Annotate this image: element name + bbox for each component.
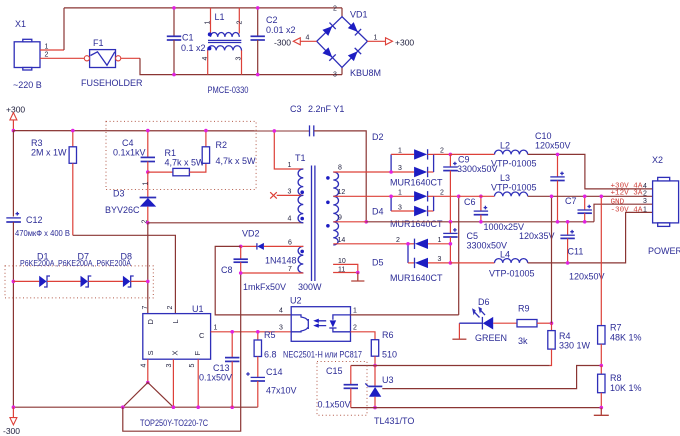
svg-text:GND: GND <box>611 198 625 206</box>
svg-text:7: 7 <box>142 306 149 310</box>
transformer T1 bias winding <box>241 240 304 274</box>
wire +12V feed to LED row <box>551 196 553 323</box>
svg-text:2.2nF Y1: 2.2nF Y1 <box>308 104 344 114</box>
junction C9 bottom GND <box>449 220 453 224</box>
junction C11 top <box>566 220 570 224</box>
svg-text:1: 1 <box>643 206 647 213</box>
dual diode D2 <box>372 132 450 188</box>
svg-text:D3: D3 <box>113 189 125 199</box>
junction D2 out / C9 top <box>449 153 453 157</box>
svg-text:C5: C5 <box>467 231 479 241</box>
LED D6 <box>452 297 507 343</box>
dual diode D4 <box>372 190 459 230</box>
inductor L3 <box>459 173 537 196</box>
svg-text:1: 1 <box>214 325 218 332</box>
svg-text:~220 В: ~220 В <box>13 80 42 90</box>
svg-text:1: 1 <box>45 44 49 51</box>
svg-text:D6: D6 <box>478 297 490 307</box>
svg-text:+300: +300 <box>6 105 25 115</box>
svg-text:TL431/TO: TL431/TO <box>374 416 414 426</box>
wire +12V row <box>528 195 653 197</box>
svg-text:VTP-01005: VTP-01005 <box>489 269 535 279</box>
svg-text:TOP250Y-TO220-7C: TOP250Y-TO220-7C <box>140 418 208 428</box>
junction C1 top <box>172 6 176 10</box>
wire bias supply to U2 pin 4 <box>215 246 291 315</box>
svg-text:VD2: VD2 <box>242 229 260 239</box>
bridge diode top-right <box>348 22 362 35</box>
junction divider node <box>600 364 604 368</box>
wire -30V row <box>528 212 653 263</box>
svg-text:0.1x50V: 0.1x50V <box>199 373 232 383</box>
svg-text:6: 6 <box>288 240 292 247</box>
junction D4 in <box>389 195 393 199</box>
svg-text:T1: T1 <box>295 153 306 163</box>
junction C7 top <box>583 195 587 199</box>
svg-text:4: 4 <box>643 183 647 190</box>
svg-text:47x10V: 47x10V <box>266 386 297 396</box>
svg-text:C1: C1 <box>182 33 194 43</box>
svg-text:D: D <box>146 319 155 325</box>
T1 pins 10 11 stubs <box>333 258 364 281</box>
junction C6 bottom <box>479 220 483 224</box>
svg-text:4: 4 <box>288 216 292 223</box>
junction +12V sense <box>457 195 461 199</box>
svg-text:4,7k x 5W: 4,7k x 5W <box>165 158 206 168</box>
wire T1 pin14 row to D5 <box>333 243 408 245</box>
svg-text:300W: 300W <box>298 282 322 292</box>
shunt regulator U3 TL431 <box>365 366 414 427</box>
resistor R2 <box>202 131 256 166</box>
svg-text:470мкФ x 400 В: 470мкФ x 400 В <box>15 228 70 238</box>
capacitor C1 <box>167 8 206 75</box>
op IC U1 TOP250Y <box>140 304 211 428</box>
wire L4 row <box>450 262 494 264</box>
junction R3 top <box>71 129 75 133</box>
wire bias return loop <box>123 273 241 431</box>
svg-text:3k: 3k <box>518 336 528 346</box>
svg-text:3: 3 <box>438 256 442 263</box>
svg-text:R6: R6 <box>382 330 394 340</box>
junction TVS left <box>12 280 16 284</box>
svg-text:1000x25V: 1000x25V <box>484 222 525 232</box>
X2 net labels <box>611 183 648 215</box>
capacitor C8 <box>221 246 286 292</box>
TVS diode D8 <box>20 252 148 288</box>
svg-text:C6: C6 <box>464 197 476 207</box>
svg-text:P6KE200A ,P6KE200A, P6KE200A: P6KE200A ,P6KE200A, P6KE200A <box>20 258 131 268</box>
junction C7 bottom <box>583 220 587 224</box>
capacitor C4 <box>113 131 155 173</box>
svg-text:+300: +300 <box>395 38 414 48</box>
optocoupler U2 <box>283 296 362 360</box>
capacitor C15 <box>318 366 359 410</box>
ground symbol at R8 <box>594 408 609 416</box>
svg-text:3: 3 <box>236 57 243 61</box>
TVS diode D1 <box>13 252 80 288</box>
svg-text:4: 4 <box>202 57 209 61</box>
svg-text:2: 2 <box>167 306 174 310</box>
svg-text:C9: C9 <box>458 155 470 165</box>
C15 dotted box <box>317 362 367 416</box>
svg-text:C8: C8 <box>221 265 233 275</box>
svg-text:D2: D2 <box>372 132 384 142</box>
svg-text:L4: L4 <box>500 250 510 260</box>
junction R8 bottom <box>600 406 604 410</box>
junction R6 bottom / U3 cathode node <box>373 364 377 368</box>
wire U3 cathode row <box>351 365 550 367</box>
svg-text:S: S <box>146 350 155 355</box>
wire +30V row <box>528 154 653 189</box>
wire R3 to U1 pin L <box>73 235 176 313</box>
capacitor C9 <box>443 154 497 221</box>
bridge diode bottom-left <box>322 47 335 61</box>
wire left rail upper (+300 to C12) <box>12 131 14 217</box>
junction S apex <box>146 381 150 385</box>
svg-text:-300: -300 <box>274 38 291 48</box>
svg-text:U1: U1 <box>192 304 204 314</box>
resistor R3 <box>31 131 77 236</box>
junction C5 bottom <box>449 261 453 265</box>
svg-text:VTP-01005: VTP-01005 <box>491 159 537 169</box>
svg-text:POWER: POWER <box>648 246 680 256</box>
wire U2 pin1 to +12V sense <box>351 314 459 316</box>
svg-text:3: 3 <box>279 325 283 332</box>
svg-text:VD1: VD1 <box>350 10 368 20</box>
svg-text:-300: -300 <box>3 426 20 436</box>
capacitor C6 <box>464 196 524 232</box>
junction C10 top <box>556 153 560 157</box>
svg-text:6.8: 6.8 <box>264 350 277 360</box>
svg-text:X2: X2 <box>652 155 663 165</box>
junction TVS right / drain riser <box>146 280 150 284</box>
svg-text:D4: D4 <box>372 207 384 217</box>
svg-text:C14: C14 <box>266 367 283 377</box>
U1 pin 1 (C) <box>211 325 233 332</box>
svg-text:10: 10 <box>338 258 346 265</box>
junction D2 in <box>389 170 393 174</box>
svg-text:48K 1%: 48K 1% <box>610 333 642 343</box>
svg-text:2: 2 <box>440 148 444 155</box>
svg-text:GREEN: GREEN <box>475 333 507 343</box>
svg-text:C13: C13 <box>213 363 230 373</box>
X1 pin 1 <box>40 44 64 51</box>
svg-text:3: 3 <box>398 205 402 212</box>
svg-text:5: 5 <box>189 364 196 368</box>
port +300 (rectifier out) <box>367 35 414 48</box>
svg-text:KBU8M: KBU8M <box>350 68 381 78</box>
junction U3 anode row <box>373 406 377 410</box>
wire GND jog to X2 <box>594 204 653 222</box>
svg-text:2: 2 <box>643 190 647 197</box>
wire top bus <box>64 7 342 9</box>
svg-text:2: 2 <box>353 325 357 332</box>
svg-text:1N4148: 1N4148 <box>265 256 297 266</box>
svg-text:0.1 x2: 0.1 x2 <box>181 43 206 53</box>
svg-text:C4: C4 <box>122 138 134 148</box>
diode VD2 <box>241 229 297 266</box>
connector X2 <box>648 155 680 256</box>
svg-text:R9: R9 <box>518 304 530 314</box>
svg-text:4: 4 <box>141 364 148 368</box>
U1 pin 4 (S) <box>141 359 148 382</box>
svg-text:510: 510 <box>382 350 397 360</box>
svg-text:X: X <box>171 350 180 355</box>
svg-text:D5: D5 <box>372 258 384 268</box>
svg-text:C15: C15 <box>326 366 343 376</box>
resistor R6 <box>371 330 397 366</box>
svg-text:MUR1640CT: MUR1640CT <box>390 178 443 188</box>
svg-text:2: 2 <box>45 52 49 59</box>
svg-text:MUR1640CT: MUR1640CT <box>390 273 443 283</box>
svg-text:2: 2 <box>333 6 337 13</box>
wire T1 pin12 row to D4 <box>333 195 391 197</box>
junction C4 top <box>146 129 150 133</box>
no-connect x on T1 pin 3 <box>270 192 277 198</box>
junction C3 drop on GND row <box>364 220 368 224</box>
junction R9/R4/+12V feed <box>550 321 554 325</box>
wire -300 bus <box>13 406 257 408</box>
TVS diode D7 <box>78 252 123 288</box>
junction -300 bus left <box>12 405 16 409</box>
resistor R4 <box>548 323 591 365</box>
svg-text:0.1x1kV: 0.1x1kV <box>113 148 146 158</box>
junction C11 bottom <box>566 261 570 265</box>
junction D3 anode / drain node <box>146 221 150 225</box>
svg-text:2M x 1W: 2M x 1W <box>31 148 67 158</box>
svg-text:C3: C3 <box>290 104 302 114</box>
junction D5 left <box>406 242 410 246</box>
svg-text:R3: R3 <box>31 138 43 148</box>
svg-text:1: 1 <box>398 190 402 197</box>
wire left rail lower (C12 to -300 bus) <box>12 222 14 407</box>
capacitor C3 <box>290 104 366 222</box>
svg-text:R1: R1 <box>165 148 177 158</box>
capacitor C13 <box>199 332 239 407</box>
svg-text:120x50V: 120x50V <box>569 272 605 282</box>
svg-text:L1: L1 <box>215 12 225 22</box>
svg-text:BYV26C: BYV26C <box>105 205 140 215</box>
svg-text:3: 3 <box>643 198 647 205</box>
diode D3 <box>105 172 156 223</box>
svg-text:4: 4 <box>279 308 283 315</box>
capacitor C5 <box>443 222 507 263</box>
transformer T1 primary <box>274 131 322 292</box>
svg-text:C12: C12 <box>26 215 43 225</box>
svg-text:7: 7 <box>288 266 292 273</box>
svg-text:3: 3 <box>288 189 292 196</box>
junction R5 top <box>256 330 260 334</box>
svg-text:9: 9 <box>338 214 342 221</box>
bridge diode top-left <box>322 23 336 36</box>
capacitor C14 <box>246 367 296 407</box>
svg-text:2: 2 <box>396 237 400 244</box>
bridge rectifier VD1 <box>317 6 381 79</box>
svg-text:4,7k x 5W: 4,7k x 5W <box>216 156 257 166</box>
svg-text:R2: R2 <box>216 140 228 150</box>
junction C8 bottom / pin7 row <box>239 271 243 275</box>
choke L1 <box>202 8 249 95</box>
svg-text:MUR1640CT: MUR1640CT <box>390 219 443 229</box>
bridge diode bottom-right <box>348 48 361 62</box>
svg-text:1: 1 <box>374 35 378 42</box>
svg-text:PMCE-0330: PMCE-0330 <box>208 85 249 95</box>
junction R2 top <box>204 129 208 133</box>
dual diode D5 <box>372 237 450 283</box>
junction C13 top <box>230 330 234 334</box>
svg-text:11: 11 <box>338 267 345 274</box>
capacitor C11 <box>560 222 604 282</box>
U1 pin 3 (X) <box>166 359 173 407</box>
svg-text:1: 1 <box>398 148 402 155</box>
transformer T1 secondary <box>326 165 345 246</box>
capacitor C7 <box>519 196 592 241</box>
junction C2 top <box>256 6 260 10</box>
svg-text:L2: L2 <box>500 141 510 151</box>
junction +12V feed top <box>550 195 554 199</box>
svg-text:2: 2 <box>440 190 444 197</box>
wire TL431 ref row <box>382 366 601 389</box>
svg-text:C10: C10 <box>535 131 552 141</box>
svg-text:3: 3 <box>398 165 402 172</box>
wire S diagonals <box>123 383 174 408</box>
svg-text:120x50V: 120x50V <box>535 141 571 151</box>
junction C10 bottom <box>556 220 560 224</box>
svg-text:U3: U3 <box>382 375 394 385</box>
snubber dotted box <box>106 121 256 189</box>
capacitor C2 <box>251 8 296 75</box>
capacitor C12 <box>6 212 70 238</box>
inductor L4 <box>489 250 535 279</box>
node +300 rail <box>12 129 16 133</box>
port +300 (left rail) <box>6 105 25 131</box>
svg-text:1: 1 <box>288 162 292 169</box>
svg-text:R5: R5 <box>264 330 276 340</box>
svg-text:0.01 x2: 0.01 x2 <box>266 25 296 35</box>
svg-text:NEC2501-Н или PC817: NEC2501-Н или PC817 <box>283 350 362 360</box>
resistor R9 <box>493 304 551 347</box>
svg-text:10K 1%: 10K 1% <box>610 383 642 393</box>
connector X1 <box>13 19 42 90</box>
svg-text:8: 8 <box>338 165 342 172</box>
svg-text:L: L <box>171 319 180 323</box>
wire drain bus to T1 pin 4 <box>148 222 303 224</box>
fuse F1 <box>81 38 143 88</box>
svg-text:C: C <box>199 331 205 340</box>
junction C2 bottom <box>256 73 260 77</box>
transformer T1 core <box>312 166 315 282</box>
svg-text:330 1W: 330 1W <box>559 341 591 351</box>
svg-text:X1: X1 <box>15 19 26 29</box>
svg-text:14: 14 <box>338 237 346 244</box>
wire F1 to bottom bus <box>121 57 140 59</box>
junction source bus <box>121 405 125 409</box>
svg-text:R7: R7 <box>610 323 622 333</box>
svg-text:FUSEHOLDER: FUSEHOLDER <box>81 78 143 88</box>
wire +12V sense riser <box>458 196 460 315</box>
wire U2 pin2 to R6 <box>351 332 376 340</box>
resistor R5 <box>254 330 276 377</box>
TVS dotted box <box>5 266 153 298</box>
svg-text:R8: R8 <box>610 373 622 383</box>
svg-text:120x35V: 120x35V <box>519 231 555 241</box>
svg-text:C2: C2 <box>266 15 278 25</box>
wire drain riser to TVS and U1 pin D <box>147 223 149 314</box>
svg-text:4: 4 <box>306 35 310 42</box>
wire U3 anode row <box>351 407 602 409</box>
svg-text:3: 3 <box>333 72 337 79</box>
resistor R1 <box>148 148 206 176</box>
svg-text:12: 12 <box>338 189 346 196</box>
junction C6 top <box>479 195 483 199</box>
svg-text:1: 1 <box>143 182 150 186</box>
svg-text:3: 3 <box>166 364 173 368</box>
junction C4/R1/D3 node <box>146 170 150 174</box>
svg-text:0.1x50V: 0.1x50V <box>318 400 351 410</box>
wire T1 pin9 / GND row <box>333 221 366 223</box>
resistor R8 <box>598 366 642 408</box>
inductor L2 <box>450 141 536 169</box>
junction C1 bottom <box>172 73 176 77</box>
svg-text:1: 1 <box>205 21 212 25</box>
svg-text:1mkFx50V: 1mkFx50V <box>243 282 286 292</box>
wire C pin row to U2 pin 3 <box>232 331 291 333</box>
svg-text:+12V 3A: +12V 3A <box>611 190 643 198</box>
svg-text:1: 1 <box>353 308 357 315</box>
junction C5 mid D5 row <box>449 242 453 246</box>
svg-text:F: F <box>193 351 202 356</box>
junction VD2/C8 node <box>239 245 243 249</box>
wire T1 pin8 row to D2 <box>333 171 391 173</box>
svg-text:U2: U2 <box>290 296 302 306</box>
wire X1 pin1 to top bus <box>63 8 65 50</box>
svg-text:F1: F1 <box>93 38 104 48</box>
X1 pin 2 <box>40 52 84 59</box>
svg-text:-30V 4A: -30V 4A <box>611 207 643 215</box>
svg-text:VTP-01005: VTP-01005 <box>491 183 537 193</box>
port -300 (AC side) <box>274 35 317 48</box>
U1 pin 5 (F) <box>189 359 198 407</box>
port -300 (bottom) <box>3 407 20 436</box>
capacitor C10 <box>535 131 571 222</box>
junction T1 pin1 riser <box>273 129 277 133</box>
svg-text:C7: C7 <box>565 196 577 206</box>
svg-text:1: 1 <box>438 237 442 244</box>
svg-text:2: 2 <box>237 21 244 25</box>
svg-text:C11: C11 <box>568 247 584 257</box>
wire +300 rail <box>13 130 310 132</box>
junction R7 top +12V <box>600 195 604 199</box>
svg-text:R4: R4 <box>559 331 571 341</box>
svg-text:L3: L3 <box>500 173 510 183</box>
resistor R7 <box>598 196 642 365</box>
